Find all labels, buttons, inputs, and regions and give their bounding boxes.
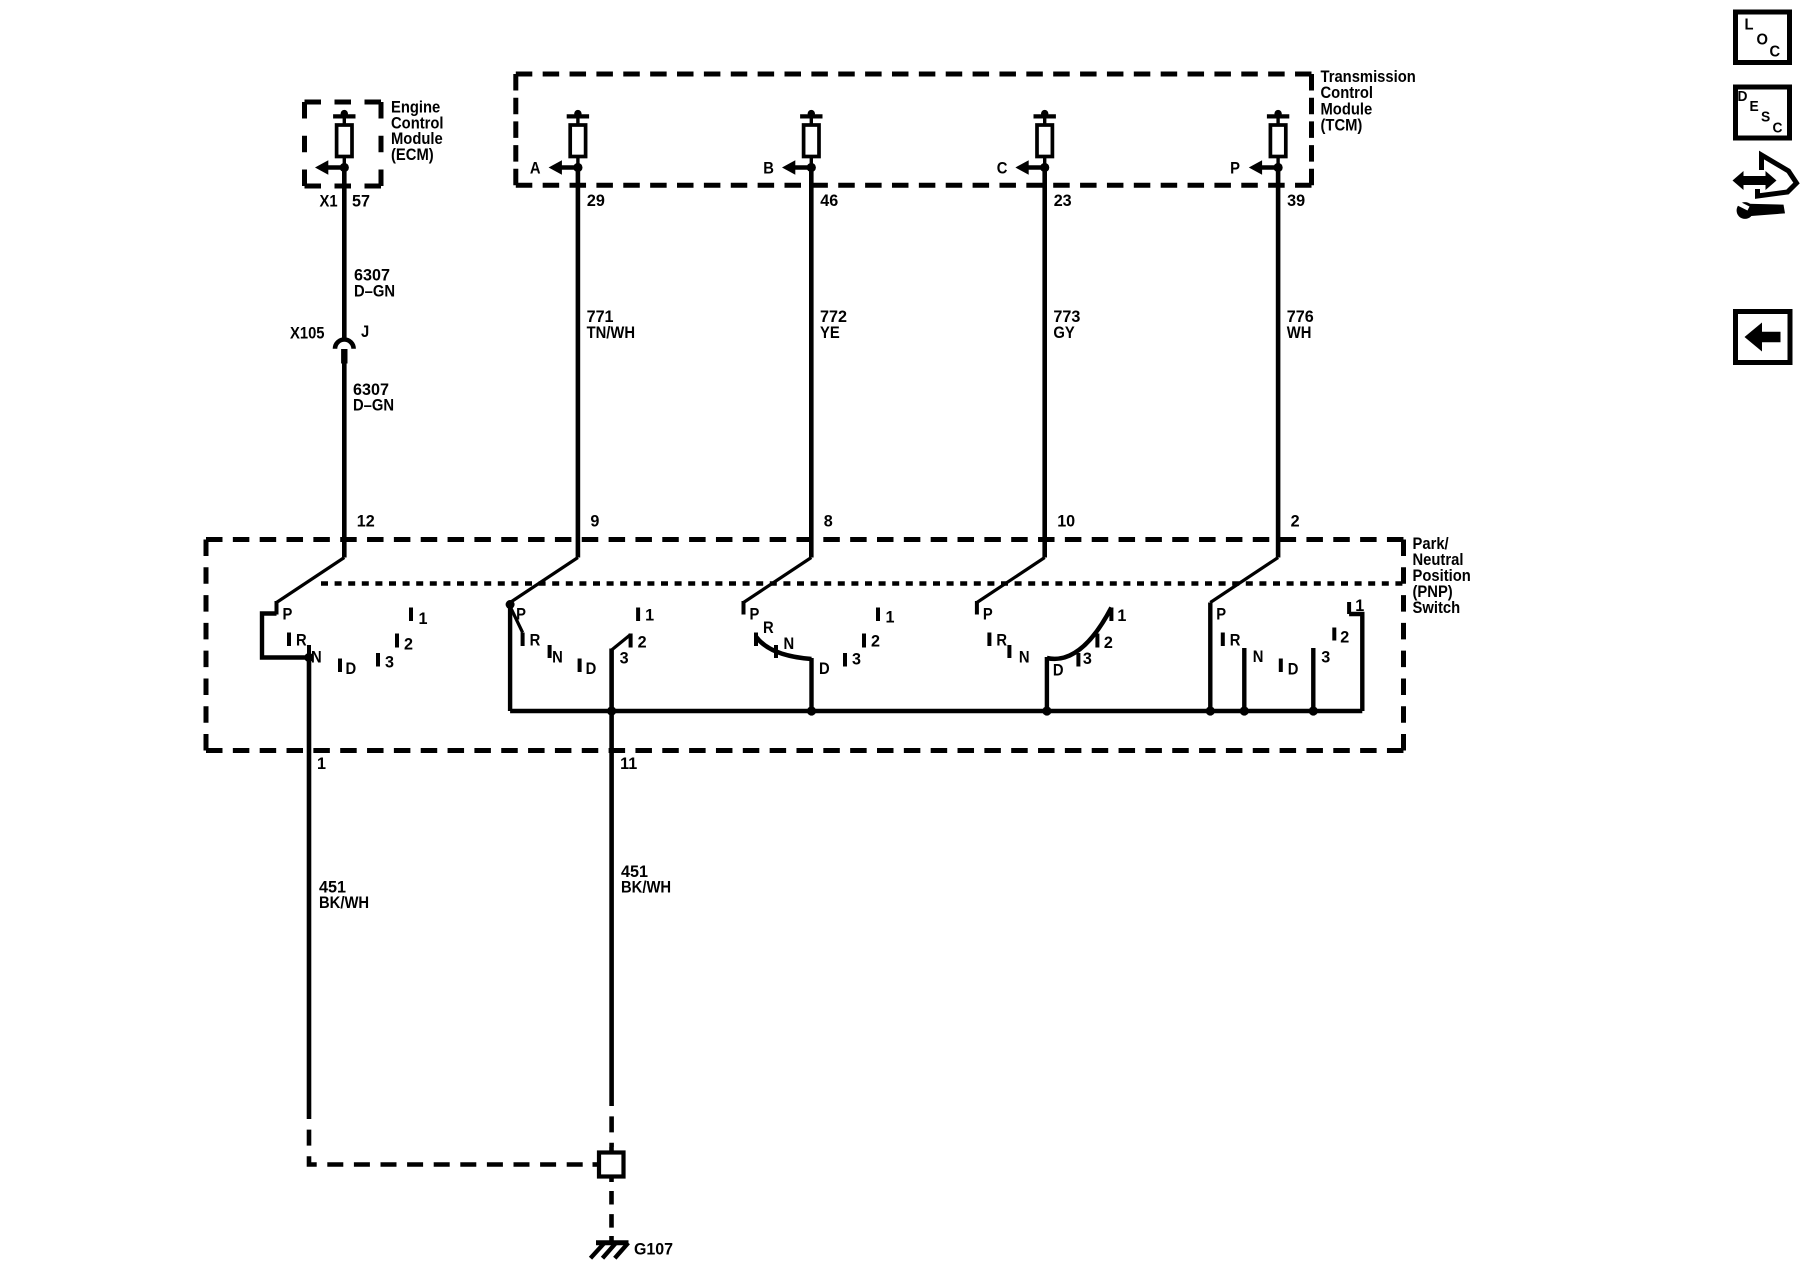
PNP pin label 12 — [357, 511, 375, 530]
svg-text:TN/WH: TN/WH — [587, 324, 635, 342]
wire X105 to PNP pin 12 — [342, 364, 347, 558]
gang 5 contact line P to bus — [1208, 603, 1212, 712]
icon LOC box — [1736, 12, 1790, 63]
ECM internal resistor (pin 57 driver) — [333, 110, 355, 168]
label J — [361, 323, 369, 341]
svg-text:1: 1 — [419, 609, 428, 628]
svg-text:X1: X1 — [320, 193, 338, 211]
svg-text:P: P — [1216, 606, 1226, 624]
TCM label text — [1321, 68, 1416, 134]
gang 4 contact ticks — [977, 601, 1112, 667]
wire label 6307 D-GN (upper) — [354, 265, 395, 301]
ECM signal arrow — [315, 160, 349, 174]
svg-text:BK/WH: BK/WH — [319, 894, 369, 912]
svg-text:3: 3 — [385, 652, 394, 671]
inline connector X105 terminal J — [335, 340, 354, 364]
svg-text:9: 9 — [590, 511, 599, 530]
svg-text:WH: WH — [1287, 324, 1312, 342]
gang 1 junction dot at N — [304, 653, 313, 662]
svg-text:2: 2 — [871, 631, 880, 650]
wire TCM P to PNP — [1276, 168, 1281, 558]
svg-text:D: D — [1053, 662, 1064, 680]
svg-text:3: 3 — [852, 649, 861, 668]
gang 5 contact ticks — [1223, 628, 1335, 673]
svg-text:C: C — [1770, 43, 1781, 61]
wire bend into gang 4 P contact — [977, 558, 1045, 603]
gang 2 contact ticks — [523, 608, 639, 673]
svg-text:D: D — [1738, 88, 1748, 105]
gang 5 bracket 1 to bus — [1349, 614, 1362, 711]
pin label 46 — [820, 191, 838, 210]
ECM label text — [391, 99, 444, 165]
svg-text:1: 1 — [886, 607, 895, 626]
gang 3 contact ticks — [744, 601, 879, 667]
svg-text:2: 2 — [1291, 511, 1300, 530]
wire bend into gang 3 P contact — [744, 558, 812, 603]
svg-text:C: C — [1773, 120, 1784, 137]
gang 3 wiper arc R to D — [756, 637, 811, 659]
svg-text:P: P — [1230, 160, 1240, 178]
svg-text:YE: YE — [820, 324, 840, 342]
PNP pin label 10 — [1057, 511, 1075, 530]
PNP internal dotted line — [321, 581, 1404, 586]
svg-text:S: S — [1761, 109, 1771, 126]
svg-text:23: 23 — [1054, 191, 1072, 210]
PNP pin label 2 — [1291, 511, 1300, 530]
wire TCM A to PNP — [576, 168, 581, 558]
svg-text:3: 3 — [620, 648, 629, 667]
dashed wire splice to ground — [609, 1191, 614, 1236]
gang 4 junction dot on bus — [1042, 706, 1051, 715]
gang 2 wire P down to bus — [508, 603, 512, 712]
svg-text:D: D — [586, 660, 597, 678]
svg-text:P: P — [750, 606, 760, 624]
gang 1 wiper bracket P to N — [262, 614, 309, 658]
icon DESC box — [1736, 87, 1790, 138]
gang 2 position letters — [516, 605, 654, 678]
svg-text:3: 3 — [1321, 647, 1330, 666]
wire label 451 BK/WH (right) — [621, 862, 671, 897]
svg-text:R: R — [296, 632, 307, 650]
wire label 773 GY — [1053, 307, 1080, 343]
dashed wire pin1 to splice — [309, 1103, 593, 1165]
TCM arrow terminal B — [763, 160, 816, 178]
svg-text:2: 2 — [404, 634, 413, 653]
PNP common bus wire — [510, 709, 1362, 713]
svg-text:D–GN: D–GN — [354, 283, 395, 301]
svg-text:1: 1 — [645, 605, 654, 624]
gang 4 position letters — [983, 606, 1126, 680]
wire bend into gang 1 P contact — [277, 558, 345, 603]
PNP switch label text — [1413, 535, 1471, 617]
svg-text:2: 2 — [1104, 633, 1113, 652]
svg-text:L: L — [1745, 16, 1754, 34]
wire bend into gang 2 P contact — [510, 558, 578, 603]
gang 5 junction dot 3 — [1309, 706, 1318, 715]
Transmission Control Module (TCM) dashed box — [516, 74, 1312, 185]
wire TCM C to PNP — [1042, 168, 1047, 558]
pin label X1 — [320, 193, 338, 211]
svg-text:N: N — [784, 635, 795, 653]
svg-text:R: R — [996, 632, 1007, 650]
wire label 776 WH — [1287, 307, 1314, 343]
svg-text:N: N — [1253, 648, 1264, 666]
svg-text:Switch: Switch — [1413, 599, 1461, 617]
svg-text:1: 1 — [317, 754, 326, 773]
gang 1 contact ticks — [277, 601, 412, 672]
svg-text:R: R — [530, 632, 541, 650]
gang 5 position letters — [1216, 596, 1364, 679]
svg-text:J: J — [361, 323, 369, 341]
TCM arrow terminal P — [1230, 160, 1283, 178]
icon connector-repair outline arrow — [1758, 155, 1797, 196]
TCM internal resistor (terminal P) — [1267, 110, 1289, 168]
gang 2 output contact line at 3 — [609, 649, 614, 1091]
pin label 23 — [1054, 191, 1072, 210]
wire bend into gang 5 P contact — [1210, 558, 1278, 603]
PNP pin label 8 — [824, 511, 833, 530]
gang 1 position letters — [283, 606, 428, 679]
TCM arrow terminal A — [530, 160, 583, 178]
splice S-box — [593, 1147, 624, 1182]
gang 2 wiper arm P to R — [510, 607, 522, 633]
svg-text:N: N — [552, 649, 563, 667]
svg-text:O: O — [1757, 31, 1768, 49]
gang 3 wire D down to bus — [809, 658, 813, 711]
PNP pin label 11 — [620, 754, 637, 773]
Park/Neutral Position (PNP) Switch dashed box — [206, 540, 1404, 751]
TCM internal resistor (terminal B) — [800, 110, 822, 168]
wire label 772 YE — [820, 307, 847, 343]
gang 2 junction dot on bus — [607, 706, 616, 715]
icon connector-repair wrench — [1734, 201, 1786, 219]
svg-text:R: R — [763, 619, 774, 637]
Engine Control Module (ECM) dashed box — [305, 102, 382, 186]
svg-text:B: B — [763, 160, 774, 178]
svg-text:G107: G107 — [634, 1240, 673, 1259]
svg-text:3: 3 — [1083, 649, 1092, 668]
svg-text:R: R — [1230, 632, 1241, 650]
svg-text:N: N — [1019, 649, 1030, 667]
wire label 771 TN/WH — [587, 307, 635, 343]
gang 5 contact line 3 to bus — [1311, 648, 1315, 711]
gang 3 junction dot on bus — [807, 706, 816, 715]
gang 4 wiper arc D to 1 — [1047, 608, 1112, 659]
svg-text:29: 29 — [587, 191, 605, 210]
ground symbol G107 — [591, 1236, 629, 1258]
wire ECM pin 57 to X105 — [342, 168, 347, 338]
svg-text:D: D — [346, 660, 357, 678]
svg-text:2: 2 — [638, 632, 647, 651]
svg-text:1: 1 — [1117, 606, 1126, 625]
wire label 451 BK/WH (left) — [319, 877, 369, 912]
svg-text:12: 12 — [357, 511, 375, 530]
svg-text:(TCM): (TCM) — [1321, 116, 1363, 134]
pin label 57 — [352, 191, 370, 210]
gang 5 junction dot P — [1206, 706, 1215, 715]
PNP pin label 9 — [590, 511, 599, 530]
svg-text:10: 10 — [1057, 511, 1075, 530]
label X105 — [290, 325, 325, 343]
label G107 — [634, 1240, 673, 1259]
svg-text:P: P — [983, 606, 993, 624]
TCM arrow terminal C — [997, 160, 1050, 178]
svg-text:X105: X105 — [290, 325, 325, 343]
pin label 39 — [1287, 191, 1305, 210]
wire gang 1 N to pin 1 (451 BK/WH) — [307, 658, 312, 1104]
gang 3 position letters — [750, 606, 895, 679]
svg-text:11: 11 — [620, 754, 637, 773]
gang 5 contact line N to bus — [1242, 648, 1246, 711]
svg-text:D: D — [819, 660, 830, 678]
svg-text:D–GN: D–GN — [353, 397, 394, 415]
svg-text:39: 39 — [1287, 191, 1305, 210]
dashed wire pin11 to splice — [609, 1090, 614, 1147]
svg-text:BK/WH: BK/WH — [621, 879, 671, 897]
gang 5 tick at 1 — [1347, 602, 1351, 614]
TCM internal resistor (terminal A) — [567, 110, 589, 168]
TCM internal resistor (terminal C) — [1034, 110, 1056, 168]
pin label 29 — [587, 191, 605, 210]
wire TCM B to PNP — [809, 168, 814, 558]
svg-text:57: 57 — [352, 191, 370, 210]
icon back-arrow box — [1736, 312, 1791, 363]
icon connector-repair double arrow — [1733, 171, 1777, 190]
svg-text:8: 8 — [824, 511, 833, 530]
svg-text:(ECM): (ECM) — [391, 146, 434, 164]
svg-text:D: D — [1288, 661, 1299, 679]
svg-text:E: E — [1750, 99, 1760, 116]
gang 4 wire D down to bus — [1045, 657, 1049, 711]
gang 5 junction dot N — [1240, 706, 1249, 715]
gang 2 arm 3 to 2 — [612, 635, 631, 651]
PNP pin label 1 — [317, 754, 326, 773]
svg-text:P: P — [283, 606, 293, 624]
svg-text:C: C — [997, 160, 1008, 178]
svg-text:46: 46 — [820, 191, 838, 210]
wire label 6307 D-GN (lower) — [353, 379, 394, 414]
svg-text:GY: GY — [1053, 324, 1075, 342]
svg-text:2: 2 — [1340, 627, 1349, 646]
gang 2 junction dot at P — [506, 600, 515, 609]
svg-text:A: A — [530, 160, 541, 178]
